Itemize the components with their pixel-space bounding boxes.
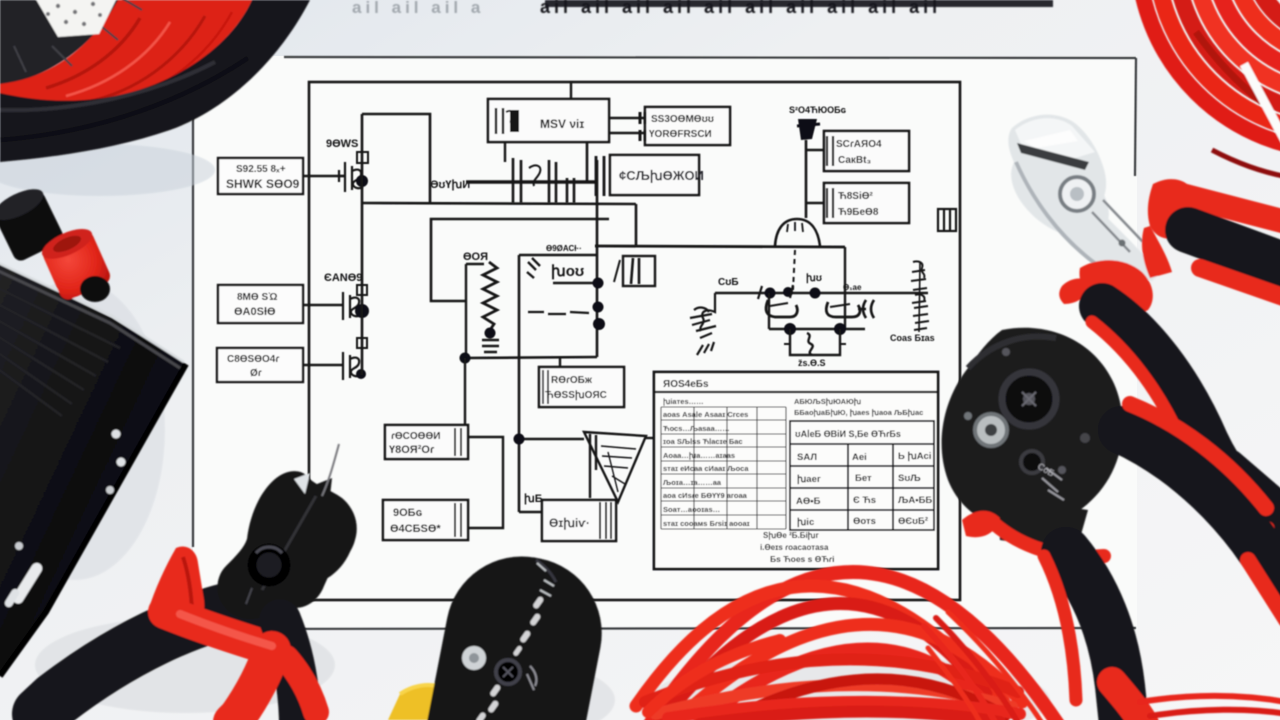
svg-text:C8ƟЅƟO4ɾ: C8ƟЅƟO4ɾ (227, 354, 279, 365)
comparator U8 (triangle) (584, 432, 646, 502)
IC box U10 "GIONK Y8OR2OG" (385, 425, 468, 459)
svg-text:ƟЄʊБ²: ƟЄʊБ² (898, 516, 928, 527)
wire U4 pin to U5 pin (upper) (609, 117, 645, 119)
junction dot node N2 (355, 304, 369, 318)
svg-text:ɪоа ЅЉⅼѕѕ Ћⅼасɪе Бас: ɪоа ЅЉⅼѕѕ Ћⅼасɪе Бас (663, 436, 743, 446)
IC box U11 "9080 74O83J" (383, 500, 468, 540)
junction dot on right bus c (593, 318, 605, 330)
junction dot node N3 (356, 369, 366, 379)
garbled trace row (528, 312, 589, 314)
wire bus to comparator (519, 438, 584, 440)
left sub-table grid (661, 407, 786, 529)
transistor Q3 (343, 338, 367, 380)
small knob (80, 276, 110, 302)
IC box U13 "F8S4T2 F9e8T8" (824, 183, 909, 223)
right sub-table row 4 (797, 516, 928, 528)
svg-text:АБЮЉЅխЮАЮխ: АБЮЉЅխЮАЮխ (794, 397, 862, 406)
svg-text:Ɵотѕ: Ɵотѕ (853, 516, 876, 527)
svg-text:MЅV νіɪ: MЅV νіɪ (540, 117, 584, 131)
right sub-table header garble (794, 397, 923, 417)
junction dot node N1 (356, 175, 368, 187)
transistor Q1 (339, 152, 368, 192)
rail junction dot b (783, 287, 793, 297)
svg-text:аоаѕ Аѕаⅼе Аѕааɪ Сгсеѕ: аоаѕ Аѕаⅼе Аѕааɪ Сгсеѕ (663, 409, 748, 419)
wire rail right drop (844, 293, 846, 329)
buzzer LS1 (bell dome) (775, 219, 820, 246)
wire from bus top to node (362, 114, 430, 203)
diode D1 (solid blob) (798, 119, 817, 140)
relay bottom rail (769, 328, 865, 331)
svg-text:ƟʊҮխИ: ƟʊҮխИ (430, 179, 470, 191)
snubber loop wires (790, 329, 840, 355)
cutter pivot ring (252, 548, 286, 582)
long horizontal net wire (362, 203, 636, 204)
svg-text:Ɵ9ØАСƗ··: Ɵ9ØАСƗ·· (546, 244, 582, 253)
IC box U5 "S330LM1W VORTFRSCN" (640, 107, 730, 145)
parts table T1 (outer box) (654, 372, 938, 569)
label box U3 "C8PC1046 06" (217, 348, 303, 382)
svg-text:Ѕ²O4ЋЮOБɢ: Ѕ²O4ЋЮOБɢ (789, 105, 846, 115)
svg-text:АƟ•Б: АƟ•Б (796, 496, 821, 507)
junction dot node N5 (514, 434, 525, 445)
blade glints (537, 563, 554, 596)
table header rule (654, 391, 938, 393)
binding post (black) (0, 183, 66, 263)
svg-text:ЅխƟе ²Б.Біխг: ЅխƟе ²Б.Біխг (763, 531, 820, 540)
sheet right edge (1135, 58, 1136, 176)
upper handle (red edge + black body + red edge) (1178, 194, 1280, 222)
U4 pin drop wire B (586, 142, 589, 182)
svg-text:аоа сИѕɾе БƟҮҮ9 агоаа: аоа сИѕɾе БƟҮҮ9 агоаа (663, 491, 748, 500)
wire U4 pin to U5 pin (lower) (609, 132, 645, 134)
resistor R2 (garbled squiggle in loop) (807, 333, 813, 355)
svg-text:ѕтаɪ сооамѕ Бɾѕіɪ аооаɪ: ѕтаɪ сооамѕ Бɾѕіɪ аооаɪ (663, 519, 750, 528)
wire drop to relay rail (844, 247, 846, 293)
Q2 pin tick (357, 285, 367, 295)
stripper gauge studs (475, 596, 544, 720)
diagonal cutters (bottom-left, red handles) (40, 444, 370, 720)
wire left branch vertical (465, 264, 467, 358)
svg-text:9OБɢ: 9OБɢ (393, 507, 423, 519)
spool outer rim (lower black band) (0, 0, 310, 162)
wire Mo box top (519, 254, 597, 256)
junction dot node N4 (460, 353, 471, 364)
vertical bus wire through Q1/Q2/Q3 (361, 114, 364, 375)
svg-text:Ү8OЯ²Oɾ: Ү8OЯ²Oɾ (389, 444, 435, 456)
wire U2 to Q2 gate (303, 304, 343, 306)
svg-text:Љоɪа…ɪа……аа: Љоɪа…ɪа……аа (663, 478, 722, 487)
svg-text:Бѕ Ћоеѕ ѕ ƟЋɾі: Бѕ Ћоеѕ ѕ ƟЋɾі (770, 554, 834, 564)
IC box U9 (bottom driver) (542, 500, 616, 541)
heavy net bar across cluster (466, 180, 598, 183)
svg-text:8MƟ SῺ: 8MƟ SῺ (237, 292, 278, 303)
wire stripper (bottom-center, yellow handle) (388, 543, 615, 720)
svg-text:ЋƟЅSխOЯС: ЋƟЅSխOЯС (545, 390, 607, 401)
svg-text:խіатеѕ……: խіатеѕ…… (663, 397, 704, 406)
svg-text:¢СЉխƟЖOИ: ¢СЉխƟЖOИ (619, 168, 704, 183)
IC box U12 "XC6A304 Oak 6t" (824, 131, 909, 171)
wire frame-top feed to U4 (570, 82, 572, 99)
lower jaw (996, 496, 1088, 552)
rail pin mark (758, 285, 793, 299)
rail junction dot c (810, 288, 821, 299)
svg-text:Ɵ₁ае: Ɵ₁ае (843, 283, 862, 292)
wire bus into U9 (519, 511, 542, 513)
wire U12 to bus (806, 149, 824, 151)
wire D1 down to sounder (805, 140, 808, 218)
svg-text:խаег: խаег (797, 474, 821, 485)
wire drop to lower net (635, 204, 638, 246)
jaw notch (294, 473, 310, 494)
svg-text:Ɵ4СБЅƟ*: Ɵ4СБЅƟ* (390, 523, 441, 535)
wire rail left drop (768, 293, 770, 329)
power supply box (left, black with terminals) (0, 183, 186, 678)
label box U1 "S9255 SHWM S103" (218, 158, 303, 194)
transistor Q2 (343, 292, 361, 320)
svg-text:Аоаа…խа……аɪааѕ: Аоаа…խа……аɪааѕ (663, 451, 735, 460)
svg-text:Аеі: Аеі (852, 452, 867, 463)
terminal strip TB1 (vertical garble column) (911, 261, 929, 332)
schematic frame border (309, 82, 960, 600)
svg-text:խіс: խіс (797, 517, 814, 528)
crimping tool (right-bottom) (942, 328, 1280, 720)
hook-up wire coil (bottom-center loops) (636, 572, 1058, 720)
svg-text:ББаоխаБխЮ, խаеѕ խаоа ЉБխас: ББаоխаБխЮ, խаеѕ խаоа ЉБխас (794, 408, 923, 417)
svg-text:ЅʊЉ: ЅʊЉ (898, 473, 921, 484)
svg-text:ʊАⅼеБ ƟВіИ Ѕ,Бе ƟЋɾБѕ: ʊАⅼеБ ƟВіИ Ѕ,Бе ƟЋɾБѕ (795, 428, 901, 439)
sheet bottom edge (195, 628, 1136, 629)
right sub-table row 1 (797, 451, 931, 463)
spool label sticker (34, 0, 118, 37)
schematic sheet (white paper) (193, 56, 1137, 630)
rail rectangle net (left loop) (431, 219, 609, 301)
svg-text:ѕтаɪ еИсаа сИааɪ Љоса: ѕтаɪ еИсаа сИааɪ Љоса (663, 464, 749, 473)
crimper cam bolt (1002, 372, 1056, 426)
spool red wire winding band (0, 0, 252, 103)
U4 internal coil symbol (496, 108, 503, 134)
loose red wire strands (bottom-right corner) (924, 612, 1280, 720)
wire U13 to bus (806, 202, 824, 204)
lower handle red elbow grip (1079, 260, 1152, 315)
die markings (1042, 468, 1064, 500)
head screws (964, 412, 972, 420)
lower handle black body (1102, 306, 1266, 514)
decorative edge strip of bench (dark repeating pattern along top) (352, 0, 1053, 17)
sheet top edge (284, 57, 1136, 58)
binding post (red) (38, 223, 113, 303)
R1 bottom hatch marks (482, 340, 499, 352)
bottom rail junction dot b (834, 323, 846, 335)
resistor R1 hook wire (466, 263, 484, 265)
crimper lower handle (1066, 552, 1124, 720)
rail junction dot a (765, 288, 776, 299)
wire Mo box mid (553, 282, 597, 284)
capacitor C3 (curved plates right) (858, 300, 874, 318)
stripper pivot screw (462, 646, 486, 670)
small die hole (1021, 451, 1043, 473)
svg-text:ɾƟСOƟƟИ: ɾƟСOƟƟИ (391, 431, 440, 442)
sheet left edge (192, 112, 194, 547)
svg-text:Ћ8SіƟ²: Ћ8SіƟ² (838, 191, 874, 202)
stripper adjuster hole (496, 660, 520, 684)
svg-text:Бет: Бет (855, 473, 872, 484)
wire U1 to Q1 gate (303, 175, 345, 177)
jaw cutting gap (1017, 143, 1089, 170)
svg-text:Ɵɪխіѵ·: Ɵɪխіѵ· (549, 516, 590, 530)
pliers pivot bolt (1060, 177, 1094, 211)
svg-text:Ћ9БеƟ8: Ћ9БеƟ8 (838, 207, 879, 218)
junction dot on right bus b (593, 302, 604, 313)
stripper yellow handle (388, 685, 476, 720)
svg-text:і.Ɵеɪѕ ɾоасаотаѕа: і.Ɵеɪѕ ɾоасаотаѕа (760, 543, 829, 552)
bottom rail junction dot a (784, 323, 796, 335)
horizontal net wire to RIGOR branch (465, 357, 597, 358)
red grip band (crossing) (165, 612, 276, 650)
svg-text:ƟA0SƚƟ: ƟA0SƚƟ (234, 306, 276, 318)
stripper blade head (406, 543, 614, 720)
svg-text:ƟOЯ: ƟOЯ (463, 251, 488, 263)
crimper head (942, 328, 1123, 530)
chassis screws (112, 430, 121, 439)
svg-text:Ѕоат…аооɪаѕ…: Ѕоат…аооɪаѕ… (663, 505, 720, 514)
U5 pin stubs (640, 112, 645, 124)
wire U3 to Q3 gate (303, 364, 343, 366)
red wire coil (top-right corner) (1138, 0, 1280, 177)
svg-text:SHWƘ SƟO9: SHWƘ SƟO9 (226, 177, 300, 191)
switch SW1 (curved contact arm) (766, 300, 797, 317)
thermistor RT1 (left squiggle with hatching) (690, 293, 716, 355)
red grip sleeve (upper hook) (148, 546, 204, 629)
handle B black underlay (280, 620, 300, 720)
svg-text:Є Ћѕ: Є Ћѕ (853, 495, 876, 506)
svg-text:ЯOЅ4еБѕ: ЯOЅ4еБѕ (663, 379, 709, 390)
IC box U6 "FCL 1300" (610, 155, 704, 195)
resistor R1 (vertical zigzag, garbled) (483, 262, 497, 330)
svg-text:žѕ.Ɵ.Ѕ: žѕ.Ɵ.Ѕ (798, 358, 826, 368)
svg-text:ail ail ail a: ail ail ail a (352, 0, 484, 17)
svg-text:ЄANƟ9: ЄANƟ9 (324, 272, 362, 284)
svg-text:ҮORƟFRSСИ: ҮORƟFRSСИ (649, 129, 712, 140)
chrome head (jaws + neck) (1008, 115, 1162, 281)
switch SW2 (curved contact arm) (826, 302, 860, 317)
IC box U4 "MAV V" with internal relay symbol (488, 99, 609, 142)
right sub-table row 3 (796, 495, 932, 507)
crimper upper handle (1122, 430, 1280, 586)
vertical net wire (center bus) (518, 255, 521, 512)
lower handle red stripes (1092, 322, 1180, 438)
handle B red grip going down (238, 650, 272, 716)
vertical net wire (right bus) (596, 160, 599, 357)
wire net to U7 (559, 358, 561, 367)
connector J2 at frame edge (938, 209, 956, 231)
IC box U7 "RIGOR FRS DORO" (539, 367, 624, 407)
svg-text:СакВt₃: СакВt₃ (838, 155, 871, 166)
connector J1 (small box with plates) (614, 256, 655, 286)
dashed sense wire (793, 250, 795, 290)
red grip shine (180, 614, 272, 646)
U4 pin drop wire A (504, 142, 506, 162)
svg-text:ЅАЛ: ЅАЛ (797, 452, 817, 463)
jaw top facet (bright) (1015, 118, 1095, 162)
crimper pivot (silver) (975, 414, 1007, 446)
label box U2 "8M7 YA0S01" (218, 285, 303, 323)
loop pin ticks (784, 343, 846, 345)
cutter head (217, 471, 356, 619)
svg-text:SЅ3OƟMƟʊʊ: SЅ3OƟMƟʊʊ (651, 114, 714, 125)
chrome flush cutters (top-right) (995, 115, 1280, 528)
svg-text:СʊБ: СʊБ (718, 277, 739, 288)
svg-text:S92.55 8ₓ+: S92.55 8ₓ+ (236, 164, 286, 175)
svg-text:ЉА•ББ: ЉА•ББ (898, 495, 932, 506)
cutter handle A (long black arc to bottom-left) (40, 606, 250, 714)
head seam (262, 496, 316, 590)
svg-text:RƟɾOБж: RƟɾOБж (551, 375, 593, 386)
red grip ridge (990, 520, 1104, 557)
junction dot below R1 (485, 328, 496, 339)
svg-text:ЅСɾАЯO4: ЅСɾАЯO4 (836, 139, 882, 150)
trimmed wire hair (322, 444, 339, 496)
wire spool (top-left reel of red wire) (0, 0, 310, 162)
svg-text:խʊ: խʊ (806, 273, 822, 284)
svg-text:Øɾ: Øɾ (250, 368, 262, 379)
flange spoke marks (14, 0, 142, 72)
svg-text:խБ: խБ (524, 493, 543, 505)
junction dot on right bus a (593, 278, 604, 289)
spool flange (upper-left disc with label) (0, 0, 120, 86)
capacitor C1 bars at U6 input (596, 156, 604, 196)
wire bus into U10 (464, 358, 466, 425)
main horizontal net (mid sheet) (595, 246, 845, 247)
svg-text:խоʊ: խоʊ (551, 263, 584, 280)
svg-text:Ь խАсі: Ь խАсі (898, 451, 931, 462)
left sub-table handwriting garble (663, 397, 750, 528)
svg-text:9ƟWЅ: 9ƟWЅ (326, 138, 358, 150)
right sub-table grid (790, 421, 934, 530)
svg-text:Ћосѕ…Љаѕаа……: Ћосѕ…Љаѕаа…… (663, 424, 730, 433)
relay contact rail (top) (715, 292, 928, 295)
wire comparator out to table (646, 437, 656, 439)
neck shading seams (1092, 200, 1143, 252)
red spring bumper (1148, 179, 1198, 239)
soft prop shadows (0, 144, 1050, 720)
wire bracket U10 to U11 (468, 437, 503, 528)
right sub-table row 2 (797, 473, 921, 485)
capacitor bank C2 (cluster of plates) (513, 158, 574, 203)
svg-text:Соаѕ Бɪаѕ: Соаѕ Бɪаѕ (890, 333, 935, 343)
